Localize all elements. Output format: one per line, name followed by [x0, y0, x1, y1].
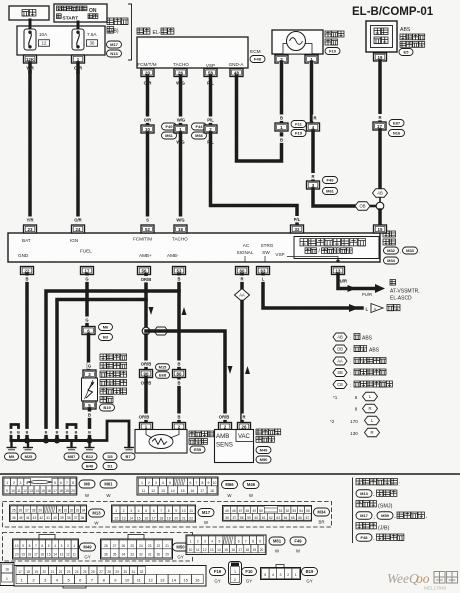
terminal 1 below fuse 2	[72, 55, 85, 63]
arrow down on OR/B wire	[149, 307, 154, 315]
connector B19 5-pin fuel	[261, 565, 301, 580]
ground bus jumper right pair	[67, 425, 76, 441]
label B above connector 1b	[279, 115, 284, 121]
wire R connector4 to connector3	[311, 131, 315, 181]
speed sensor terminal 1	[305, 55, 318, 63]
fuel ground junction dot	[76, 438, 93, 444]
label G below connector 6	[86, 338, 91, 344]
connector 17 E87 N16	[373, 120, 405, 137]
wire B sensor2 down to connector	[280, 62, 284, 122]
option diamond AA below 60	[235, 289, 250, 302]
wire OR/B circle down to connector 90	[144, 335, 148, 369]
wire stub power to fuse 1	[29, 20, 32, 29]
oval M17 W	[198, 509, 214, 526]
legend OB without ABS	[333, 345, 380, 354]
label S below connector 10	[145, 139, 150, 145]
label W/G below connector 1	[175, 139, 185, 145]
legend AA with auto AC	[333, 357, 386, 365]
oval M13 W	[89, 509, 105, 526]
combination meter box	[8, 233, 380, 262]
wire W/G to meter TACHO	[179, 133, 183, 216]
label 车速传感器 F10	[325, 31, 344, 55]
oval M49 GY	[80, 543, 96, 560]
oval B19 GY	[302, 568, 318, 584]
meter internal leader lines	[245, 256, 340, 263]
connector 90 and 80 with M15 E68	[140, 364, 186, 379]
arrow up on B wire 53	[182, 307, 187, 315]
meter terminal 53 AMB-	[173, 267, 186, 275]
label R above connector 4	[313, 115, 318, 121]
wire Y/R fuse12 to meter BAT	[28, 63, 32, 216]
wire OR/B connector90 to env sensor 1	[144, 378, 148, 423]
meter terminal 63 STRG SW	[257, 267, 270, 275]
bracket for J/B label	[128, 4, 132, 60]
env temp sensor terminal 1	[140, 423, 153, 431]
junction dots on ground bus	[24, 438, 60, 444]
connector grid M17 J/B	[112, 505, 196, 522]
label OR/B above AMB terminal	[218, 414, 231, 420]
label OR/B above connector 90	[140, 361, 153, 367]
label R under sensor term 1	[309, 62, 314, 69]
separator line above connector section	[0, 473, 460, 475]
ambient temperature sensor box 环境温度传感器 E55	[135, 430, 187, 454]
ground M9	[5, 441, 19, 461]
fuse F2 7.5A [30]	[72, 29, 98, 50]
wire O/R fuse30 to meter IGN	[76, 63, 80, 216]
connector grid M66 18-pin	[137, 477, 218, 495]
meter internal labels row1	[22, 237, 285, 258]
meter terminal 52 FCM	[141, 225, 154, 233]
label ABS 执行器和电气单元 E5	[399, 27, 425, 56]
label W/G under term 26	[175, 79, 185, 86]
labels under meter bottom terminals	[25, 276, 349, 284]
junction circle speed signal merge	[376, 197, 384, 210]
meter terminal 32 VSP	[291, 225, 304, 233]
ground branch h2 to left	[57, 300, 146, 441]
label B under term 48	[234, 79, 239, 86]
arrow up on VAC wire	[245, 366, 250, 374]
ECM terminal 58	[204, 69, 217, 77]
wire stub ign to fuse 2	[77, 22, 80, 29]
VAC terminal 26	[238, 423, 251, 431]
label 环境温度传感器 E55	[189, 431, 214, 453]
next page triangle marker A 下页	[371, 304, 400, 313]
label G above connector 6	[85, 317, 90, 323]
fuse box J/B outline	[17, 26, 105, 55]
arrow down on AMB branch	[228, 366, 233, 374]
label OR/B above env term1	[138, 414, 151, 420]
unified meter control unit inner box 综合仪表控制单元	[294, 237, 379, 259]
dashed option box 1	[3, 502, 332, 528]
label B below fuel sensor	[87, 412, 92, 418]
legend CB without rear shade	[333, 381, 393, 389]
label R above connector 17	[378, 114, 383, 120]
meter terminal 15 speed in	[374, 225, 387, 233]
label R above connector 3	[311, 173, 316, 179]
long connector 32-pin meter	[14, 566, 206, 589]
label 燃油液位传感器单元和燃油泵	[100, 354, 127, 403]
label L at next page marker	[366, 307, 369, 312]
label 参见 EL-电源	[137, 28, 174, 36]
wire R connector17 to AB diamond	[378, 130, 382, 188]
env temp sensor terminal 2	[173, 423, 186, 431]
label OR/B below connector 90	[140, 380, 153, 386]
oval M61 W	[100, 480, 117, 498]
label O/R above connector 10	[142, 117, 152, 123]
wire B fuel sensor to ground bus	[88, 409, 92, 440]
dashed option box 2	[3, 533, 193, 562]
option hexagon OB on wire	[355, 202, 370, 211]
connector 1 F44 M66	[174, 123, 207, 139]
meter internal labels row2	[18, 249, 179, 259]
label B under sensor term 2	[279, 62, 284, 69]
connector M49 AC amp 20-pin	[13, 535, 79, 560]
oval M6 W	[79, 480, 95, 498]
meter terminal 17 FUEL	[81, 267, 94, 275]
fuse F1 10A [12]	[24, 29, 50, 50]
oval M46 W	[243, 481, 259, 499]
label P/L above connector 2	[205, 117, 215, 123]
ABS terminal 19	[374, 53, 387, 61]
label O/R under term 20	[142, 79, 152, 86]
ground bus jumper left pair	[11, 425, 19, 441]
AMB SENS terminal 2	[219, 423, 232, 431]
label G above fuel sensor term	[87, 363, 92, 369]
legend SB with rear shade	[333, 369, 386, 377]
wire R junction to meter 15	[378, 210, 382, 224]
oval F49 W bottom	[290, 537, 306, 554]
label B below connector 80	[177, 380, 182, 386]
label 保险丝盒 (J/B) M17 N13	[107, 18, 129, 57]
label Y/R	[25, 64, 36, 71]
auto AC amplifier box AMB SENS VAC	[215, 430, 254, 463]
terminal 12K below fuse 1	[24, 55, 37, 63]
meter terminal 18 TACHO	[174, 225, 187, 233]
wire O/R ECM20 down	[146, 76, 150, 124]
fuel gauge sensor unit box with terminal 3	[82, 370, 98, 401]
meter terminal 60 AC SIGNAL	[236, 267, 249, 275]
label W/G above connector 1	[176, 117, 186, 123]
wire AA branch to AMB SENS	[146, 331, 225, 422]
wire G connector6 to fuel sensor	[87, 335, 91, 371]
connector 3 F49 M61	[307, 177, 338, 195]
label B above connector 80	[177, 361, 182, 367]
vehicle speed sensor box 车速传感器 F10	[272, 30, 323, 54]
connector grid SMJ left	[10, 505, 87, 522]
ground M25	[21, 441, 36, 461]
wire L meter63 to next page marker	[263, 275, 362, 309]
connector 10 F49 M61	[141, 123, 177, 139]
watermark WeeQoo	[387, 571, 458, 591]
wire B GND-A down left-jog to sensor ground	[237, 76, 282, 161]
label O/R	[73, 64, 84, 71]
wire R meter60 through AA diamond to VAC	[240, 275, 244, 289]
wire G meter17 fuel down	[85, 275, 89, 327]
wire W/G ECM26 down	[179, 76, 183, 124]
ground loop to B7	[90, 421, 130, 447]
oval M50 GY	[173, 543, 189, 560]
ground M87	[64, 441, 79, 461]
label R above VAC terminal	[242, 414, 247, 420]
legend AB with ABS	[333, 333, 373, 342]
ground bus horizontal	[11, 439, 76, 442]
ground B12 B48	[82, 441, 97, 470]
label P/L above terminal 32	[292, 216, 302, 222]
label S above 52	[145, 217, 150, 223]
label R below connector 3	[311, 193, 316, 199]
oval F10 GY	[242, 568, 257, 584]
label W/G above 18	[175, 217, 185, 223]
option oval AA tag	[150, 327, 168, 335]
label 至 AT-VSSMTR EL-ASCD	[390, 280, 420, 302]
legend *2 170 L 130 R	[330, 416, 380, 437]
connector 1b F10 F19	[275, 121, 306, 137]
wire B meter22 to ground bus	[25, 275, 29, 441]
B labels on ground bus wires	[9, 429, 92, 435]
speed sensor terminal 2	[275, 55, 288, 63]
arrow right to AT-VSSMTR EL-ASCD	[375, 284, 385, 293]
oval F19 GY	[210, 568, 226, 584]
connector 4	[307, 123, 320, 131]
ECM terminal 20	[141, 69, 154, 77]
label ECM F48	[250, 49, 265, 63]
label P/L below connector 2	[205, 139, 215, 145]
label O/R above 24	[73, 217, 83, 223]
meter terminal 56 AMB+	[138, 267, 151, 275]
label 自动空调放大器 M49 M50	[256, 429, 281, 463]
connector 6 M6 B3	[82, 324, 113, 341]
junction circle AA on OR/B	[142, 327, 150, 335]
label B below connector 1b	[279, 137, 284, 143]
oval M61 W bottom	[269, 537, 285, 554]
label R below junction circle	[378, 214, 383, 220]
ABS actuator box 仪表输出 E5	[366, 21, 397, 52]
ground B7 with D5 D1 ovals	[103, 448, 135, 470]
connector F10 2-pin speed sensor	[229, 562, 242, 585]
label P/L under term 58	[205, 79, 215, 86]
meter terminal 24 IGN	[72, 225, 85, 233]
label R under ABS terminal	[378, 61, 383, 68]
wire S to meter FCM	[146, 133, 150, 216]
ECM terminal 48	[230, 69, 243, 77]
wire R ABS down	[378, 61, 382, 121]
ECM terminal 26	[174, 69, 187, 77]
connector grid M6 20-pin	[3, 477, 77, 495]
wire R connector3 down right to OB circle	[313, 189, 376, 206]
edge connector bottom left	[0, 563, 14, 586]
fuel sensor terminal 5	[83, 401, 115, 411]
label B above env term2	[177, 414, 182, 420]
ECM box with FCM/TIM TACHO VSP GND-A	[137, 37, 248, 68]
oval M34 BR	[314, 508, 330, 525]
wire P/L ECM58 down	[209, 76, 213, 124]
meter terminal 23 BAT	[24, 225, 37, 233]
title EL-B/COMP-01	[352, 6, 434, 18]
label R below connector 17	[378, 137, 383, 143]
wire OR/B meter56 down	[144, 275, 148, 328]
legend *1 6 L 8 R	[333, 392, 378, 413]
connector M50 AC amp 16-pin	[101, 535, 173, 560]
arrow left on L wire	[349, 304, 359, 312]
wire P/L down and right to meter VSP 32	[211, 133, 298, 224]
wire B meter53 down to env sensor	[177, 275, 181, 423]
wire PU/R meter13 to AT-VSSMTR arrow	[338, 275, 374, 289]
wire R sensor1 down	[310, 62, 314, 122]
ignition switch box 点火开关处于ON或START位置	[54, 4, 107, 22]
ground branch h1 to left	[46, 291, 179, 440]
label 组合仪表 M32 M33 M34	[383, 231, 420, 264]
connector grid M34 meter	[223, 506, 312, 522]
meter terminal 22 GND	[21, 267, 34, 275]
oval M66 W	[222, 481, 238, 499]
reference text block 参见以下内容	[353, 478, 428, 544]
connector grid M61 F49 inline 20-pin	[186, 535, 266, 555]
label PU/R on wire	[348, 285, 373, 297]
wire from AA diamond down to VAC terminal	[240, 302, 244, 423]
option hexagon AB	[373, 189, 388, 198]
label Y/R above 23	[25, 217, 35, 223]
connector 2	[204, 125, 217, 133]
power source box 电源	[9, 6, 49, 20]
meter terminal 13 VSP out	[332, 267, 345, 275]
